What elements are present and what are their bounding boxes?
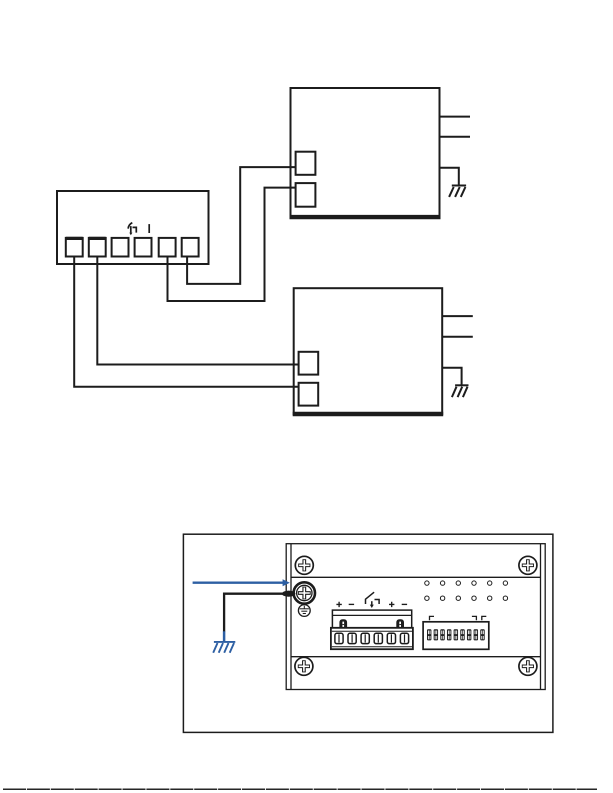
connector key left: [340, 620, 347, 628]
unit 1 right lead A: [440, 116, 471, 118]
unit 2 chassis ground: [452, 385, 469, 397]
page footer dashed line: [3, 788, 597, 790]
panel terminal connector upper body: [331, 610, 413, 649]
unit 1 thick bottom edge: [290, 215, 441, 219]
unit 2 box: [294, 288, 443, 414]
terminal 3: [112, 238, 129, 257]
screw top-left: [295, 556, 313, 574]
momentary-input icon on TB1: [128, 223, 136, 236]
earth label circle: [298, 605, 310, 617]
DIP switch block: [423, 622, 489, 650]
DIP switch 5: [454, 629, 458, 640]
blue chassis ground symbol: [213, 631, 235, 652]
screw bottom-right: [519, 657, 537, 675]
figure outer frame: [183, 534, 553, 732]
screw top-right: [519, 556, 537, 574]
terminal 6: [182, 238, 199, 257]
DIP switch 4: [447, 629, 451, 640]
unit 1 ground wire: [440, 168, 459, 186]
terminal block TB1 outline: [57, 191, 209, 264]
wire: terminal 5 to unit1 lower port: [168, 188, 296, 301]
panel left inner flange line: [290, 544, 292, 690]
ground screw with ring: [294, 582, 315, 603]
unit 1 box: [291, 88, 440, 217]
panel face plate: [286, 544, 545, 690]
panel right inner flange line: [540, 544, 542, 690]
wire lug: [282, 591, 295, 597]
unit 2 lower port: [299, 383, 319, 406]
terminal 4: [135, 238, 152, 257]
DIP switch group brackets: [430, 616, 487, 620]
terminal 5: [159, 238, 176, 257]
black ground wire: [224, 594, 284, 632]
DIP switch 8: [474, 629, 478, 640]
DIP switch 1: [427, 629, 431, 640]
LED indicator circles: [425, 581, 508, 601]
panel upper divider: [291, 576, 541, 578]
blue arrow: [193, 579, 290, 586]
unit 1 right lead B: [440, 136, 471, 138]
DIP switch 7: [467, 629, 471, 640]
wire: terminal 2 to unit2 upper port: [97, 257, 298, 365]
connector slots: [335, 633, 409, 643]
DIP switch 9: [480, 629, 484, 640]
unit 2 ground wire: [442, 368, 461, 386]
unit 1 chassis ground: [449, 186, 466, 197]
wire: terminal 6 to unit1 upper port: [187, 167, 296, 284]
terminal 2: [89, 238, 106, 257]
connector lower body: [331, 628, 413, 649]
DIP switch 6: [460, 629, 464, 640]
DIP switch 3: [440, 629, 444, 640]
unit 2 upper port: [299, 352, 319, 375]
panel lower divider: [291, 656, 541, 658]
unit 2 right lead B: [442, 336, 473, 338]
unit 1 upper port: [296, 152, 316, 175]
unit 2 right lead A: [442, 315, 473, 317]
unit 2 thick bottom edge: [293, 412, 444, 417]
terminal strip labels: [336, 602, 407, 607]
wire: terminal 1 to unit2 lower port: [74, 257, 298, 387]
screw bottom-left: [295, 657, 313, 675]
bar mark on TB1: [148, 224, 150, 233]
terminal 1: [66, 238, 83, 257]
unit 1 lower port: [296, 183, 316, 207]
connector key right: [397, 620, 404, 628]
momentary-input icon on panel: [366, 592, 380, 608]
DIP switch 2: [434, 629, 438, 640]
